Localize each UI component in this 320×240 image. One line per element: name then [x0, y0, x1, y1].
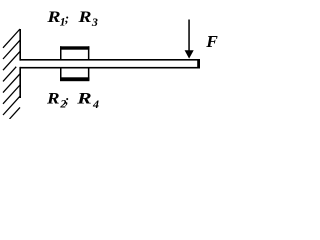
svg-text:R: R — [77, 9, 91, 26]
label R2; R4 — [46, 90, 99, 111]
beam right end — [197, 59, 200, 69]
strain gauge upper (R1;R3) — [60, 46, 89, 49]
svg-text:;: ; — [65, 11, 69, 25]
wall line — [19, 29, 21, 98]
beam top line — [20, 59, 200, 61]
svg-text:3: 3 — [91, 15, 98, 29]
svg-text:;: ; — [65, 93, 69, 107]
beam bottom line — [20, 67, 200, 69]
beam interior mask — [16, 61, 197, 67]
strain gauge lower (R2;R4) — [60, 77, 89, 81]
svg-text:4: 4 — [92, 97, 99, 111]
svg-text:R: R — [46, 9, 60, 26]
svg-text:F: F — [205, 32, 218, 51]
svg-text:R: R — [76, 90, 92, 107]
wall hatching — [3, 29, 20, 119]
force arrow head — [185, 50, 194, 58]
force arrow line — [188, 20, 190, 51]
label R1; R3 — [46, 9, 98, 29]
svg-text:R: R — [46, 90, 60, 107]
